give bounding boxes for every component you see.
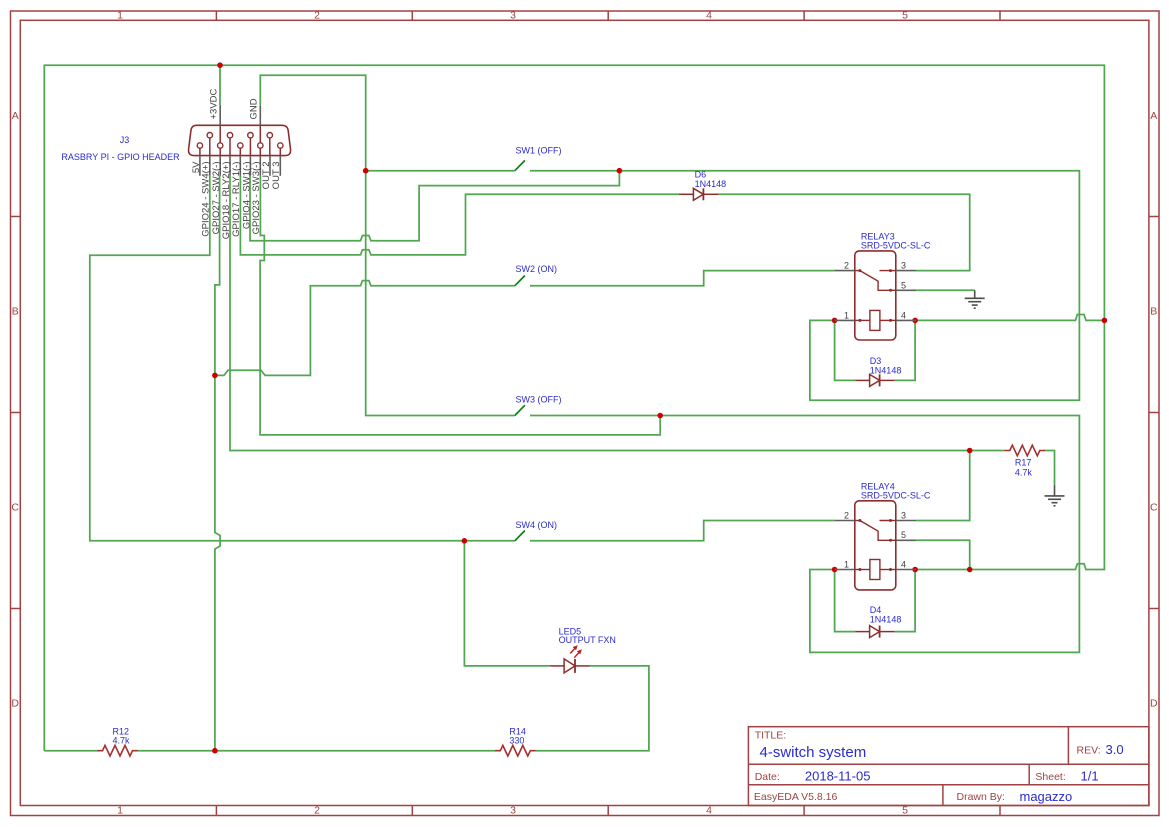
switch SW3 lever [515, 405, 525, 415]
relay RELAY3 pin numbers [844, 261, 906, 321]
svg-text:2: 2 [314, 10, 320, 22]
svg-text:1N4148: 1N4148 [870, 366, 902, 376]
node SW1 output junction [617, 168, 623, 174]
svg-text:SW4 (ON): SW4 (ON) [516, 520, 558, 530]
relay RELAY4 switch lever [860, 521, 891, 541]
title block row divider 2 [748, 784, 1149, 786]
node RELAY3 pin1 junction [832, 318, 838, 324]
wire GPIO18-RLY2+ pin to R17 and ground [230, 176, 1055, 485]
wire D3 snubber loop [835, 320, 916, 380]
svg-text:+3VDC: +3VDC [209, 88, 220, 119]
svg-text:SW3 (OFF): SW3 (OFF) [516, 395, 562, 405]
svg-text:OUTPUT FXN: OUTPUT FXN [559, 635, 616, 645]
svg-text:C: C [1150, 502, 1158, 514]
relay RELAY3 coil [860, 310, 891, 330]
node SW4 LED branch junction [462, 538, 468, 544]
connector J3 internal pin leads [200, 125, 280, 155]
frame column tick top 3 [607, 11, 609, 20]
relay RELAY3 internal leads and contacts [855, 269, 896, 322]
frame row tick left B/C [11, 412, 21, 414]
diode D3 1N4148 [855, 374, 894, 386]
relay RELAY4 internal leads and contacts [855, 519, 896, 571]
frame column tick bottom 1 [215, 806, 217, 816]
node SW3 output junction [657, 413, 663, 419]
node RELAY4 pin5 junction [967, 567, 973, 573]
node SW1 input junction [363, 168, 369, 174]
svg-text:2018-11-05: 2018-11-05 [805, 768, 871, 783]
svg-text:1/1: 1/1 [1081, 768, 1099, 783]
connector J3 pin circles bottom row [197, 143, 283, 148]
node R17 junction [967, 448, 973, 454]
resistor R12 4.7k [97, 745, 138, 756]
svg-text:4-switch system: 4-switch system [760, 744, 867, 761]
svg-text:EasyEDA V5.8.16: EasyEDA V5.8.16 [754, 791, 838, 803]
node RELAY3 pin4 junction [912, 318, 918, 324]
svg-text:RASBRY PI - GPIO HEADER: RASBRY PI - GPIO HEADER [61, 152, 180, 162]
node RELAY4 pin1 junction [832, 567, 838, 573]
svg-text:Date:: Date: [755, 771, 780, 783]
title block REV divider [1067, 727, 1069, 765]
node SW2 branch junction [212, 373, 218, 379]
wire R17 node down to RELAY4 pin3 [916, 451, 970, 521]
frame column tick top 5 [999, 11, 1001, 20]
wire GPIO24-SW4+ pin to SW4 input [90, 176, 515, 541]
svg-text:1N4148: 1N4148 [695, 179, 727, 189]
svg-text:2: 2 [844, 261, 849, 271]
svg-text:A: A [12, 110, 19, 122]
svg-text:REV:: REV: [1077, 744, 1101, 756]
svg-text:GPIO24 - SW4(+): GPIO24 - SW4(+) [201, 162, 212, 237]
svg-text:SW2 (ON): SW2 (ON) [516, 264, 558, 274]
svg-text:4: 4 [901, 560, 906, 570]
svg-text:3.0: 3.0 [1106, 742, 1124, 757]
switch SW1 lever [515, 160, 525, 170]
frame row tick left C/D [11, 608, 21, 610]
svg-text:4: 4 [706, 804, 712, 816]
svg-text:1: 1 [117, 10, 123, 22]
wire RELAY4 pin5 to pin4 node [916, 540, 970, 569]
svg-text:2: 2 [314, 804, 320, 816]
svg-text:A: A [1150, 110, 1157, 122]
wire bottom rail through R12 R14 and LED branch [44, 541, 649, 751]
svg-text:1: 1 [844, 310, 849, 320]
svg-text:D3: D3 [870, 356, 882, 366]
ground at RELAY3 pin5 [965, 290, 985, 308]
frame column tick bottom 5 [999, 806, 1001, 816]
relay RELAY4 body [855, 501, 896, 590]
svg-text:1N4148: 1N4148 [870, 615, 902, 625]
svg-text:5: 5 [901, 280, 906, 290]
connector J3 body [189, 125, 291, 155]
resistor R17 4.7k [1004, 445, 1045, 456]
svg-text:SW1 (OFF): SW1 (OFF) [516, 146, 562, 156]
connector J3 pin circles top row [207, 133, 272, 138]
wire SW1 output to RELAY3 coil loop pin1 [530, 171, 1079, 401]
relay RELAY3 switch lever [860, 271, 891, 291]
svg-text:magazzo: magazzo [1020, 789, 1073, 804]
svg-text:330: 330 [509, 735, 524, 745]
svg-text:SRD-5VDC-SL-C: SRD-5VDC-SL-C [861, 240, 931, 250]
svg-text:D6: D6 [695, 170, 707, 180]
switch SW2 lever [515, 276, 525, 286]
svg-text:D: D [11, 698, 19, 710]
wire SW3 output to RELAY4 coil loop pin1 [530, 416, 1079, 653]
svg-text:5: 5 [902, 10, 908, 22]
title block outline [748, 727, 1149, 806]
svg-text:1: 1 [117, 804, 123, 816]
svg-text:OUT 3: OUT 3 [271, 162, 282, 190]
frame row tick right A/B [1149, 216, 1159, 218]
svg-text:B: B [12, 306, 19, 318]
frame column tick top 1 [215, 11, 217, 20]
resistor R14 330 [495, 745, 536, 756]
frame row tick right B/C [1149, 412, 1159, 414]
svg-text:1: 1 [844, 560, 849, 570]
svg-text:3: 3 [901, 511, 906, 521]
frame column tick top 2 [411, 11, 413, 20]
frame column tick bottom 4 [803, 806, 805, 816]
wire SW2 input branch (double hop over x230 x260) [215, 281, 515, 376]
svg-text:C: C [11, 502, 19, 514]
wire +3VDC pin stub up to rail [219, 65, 221, 105]
frame row tick left A/B [11, 216, 21, 218]
node right rail junction [1102, 318, 1108, 324]
svg-text:R17: R17 [1015, 457, 1032, 467]
title block Sheet divider [1028, 764, 1030, 785]
frame column tick bottom 2 [411, 806, 413, 816]
relay RELAY3 body [855, 251, 896, 340]
svg-text:D4: D4 [870, 605, 882, 615]
svg-text:3: 3 [510, 804, 516, 816]
svg-text:4.7k: 4.7k [1015, 467, 1033, 477]
frame column tick top 4 [803, 11, 805, 20]
svg-text:SRD-5VDC-SL-C: SRD-5VDC-SL-C [861, 490, 931, 500]
switch SW4 lever [515, 531, 525, 541]
connector J3 external pin stubs [200, 105, 280, 176]
svg-text:B: B [1150, 306, 1157, 318]
svg-text:Sheet:: Sheet: [1035, 771, 1065, 783]
wire GPIO17-RLY1- pin through D6 to RELAY3 pin3 (hop over x365) [240, 176, 969, 271]
wire SW4 output to RELAY4 pin2 [530, 521, 835, 541]
wire D4 snubber loop [835, 570, 916, 632]
svg-text:4: 4 [706, 10, 712, 22]
frame column tick bottom 3 [607, 806, 609, 816]
svg-text:5: 5 [901, 530, 906, 540]
svg-text:4: 4 [901, 310, 906, 320]
svg-text:D: D [1150, 698, 1158, 710]
node RELAY4 pin4 junction [912, 567, 918, 573]
wire SW1 input from GND node [366, 170, 515, 172]
relay RELAY4 pin stubs [835, 521, 916, 570]
wire +3VDC top rail / right rail to RELAY4 pin4 (with hop over x=1079) [44, 65, 1104, 751]
wire SW2 output to RELAY3 pin2 [530, 271, 835, 286]
svg-text:TITLE:: TITLE: [755, 730, 787, 742]
relay RELAY3 pin stubs [835, 271, 916, 321]
relay RELAY4 pin numbers [844, 511, 906, 570]
title block row divider 1 [748, 763, 1149, 765]
title block DrawnBy divider [942, 785, 944, 806]
LED LED5 [550, 645, 589, 673]
svg-text:Drawn By:: Drawn By: [957, 791, 1005, 803]
diode D4 1N4148 [855, 626, 894, 638]
ground at R17 [1045, 485, 1065, 506]
node +3VDC rail junction [217, 62, 223, 68]
node bottom rail junction [212, 748, 218, 754]
wire GPIO27-SW2- pin down left rail (jogs at y285 and y540) [215, 176, 220, 751]
svg-text:3: 3 [901, 261, 906, 271]
svg-text:GND: GND [249, 98, 260, 119]
svg-text:2: 2 [844, 511, 849, 521]
wire GPIO4-SW1- pin to SW1 output node (hop over x365) [250, 171, 619, 241]
wire GND pin to SW3 input [260, 75, 515, 415]
frame row tick right C/D [1149, 608, 1159, 610]
relay RELAY4 coil [860, 560, 891, 580]
wire GPIO23-SW3- pin to SW3 output node (dogleg) [260, 176, 660, 435]
wire RELAY3 pin5 to ground [916, 289, 975, 291]
svg-text:J3: J3 [120, 135, 130, 145]
svg-text:3: 3 [510, 10, 516, 22]
diode D6 1N4148 [679, 188, 718, 200]
wire RELAY3 pin4 to right rail (with hop over x=1079) [916, 315, 1104, 321]
